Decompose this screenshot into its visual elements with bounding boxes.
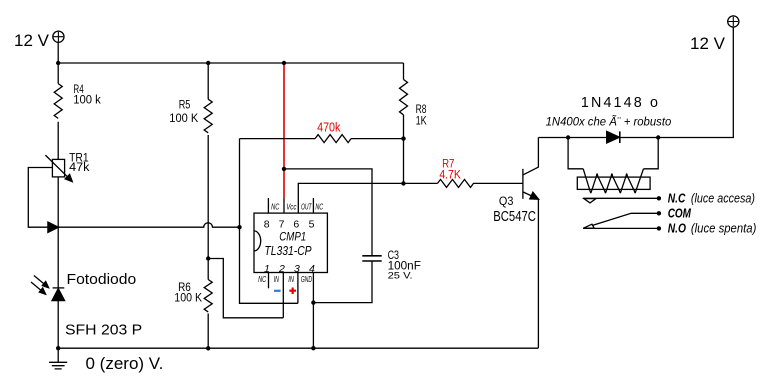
svg-text:1N4148 o: 1N4148 o	[581, 95, 658, 111]
svg-text:R8: R8	[416, 104, 427, 116]
svg-text:N.O: N.O	[668, 222, 687, 236]
svg-text:8: 8	[264, 219, 270, 231]
svg-text:Fotodiodo: Fotodiodo	[67, 271, 137, 288]
svg-text:R5: R5	[179, 100, 191, 112]
svg-text:Vcc: Vcc	[286, 202, 297, 212]
svg-text:1N400x che Ã¨ + robusto: 1N400x che Ã¨ + robusto	[546, 115, 672, 128]
svg-text:CMP1: CMP1	[279, 229, 306, 243]
svg-text:470k: 470k	[317, 120, 341, 135]
svg-text:NC: NC	[271, 202, 280, 212]
svg-text:6: 6	[293, 219, 299, 231]
svg-text:5: 5	[309, 219, 315, 231]
svg-text:1: 1	[264, 263, 270, 275]
svg-text:(luce spenta): (luce spenta)	[691, 222, 757, 236]
svg-text:3: 3	[294, 263, 300, 275]
svg-text:NC: NC	[258, 274, 267, 284]
svg-text:IN: IN	[288, 274, 294, 284]
svg-text:BC547C: BC547C	[493, 209, 536, 225]
svg-text:(luce accesa): (luce accesa)	[691, 192, 755, 206]
svg-text:4.7K: 4.7K	[439, 170, 461, 182]
svg-text:COM: COM	[668, 207, 692, 221]
svg-text:0 (zero) V.: 0 (zero) V.	[86, 354, 164, 373]
svg-text:100 k: 100 k	[73, 94, 101, 106]
svg-text:Q3: Q3	[499, 196, 514, 208]
svg-text:1K: 1K	[416, 116, 427, 128]
svg-text:25 V.: 25 V.	[388, 271, 413, 282]
svg-text:IN: IN	[274, 274, 280, 284]
svg-text:2: 2	[278, 263, 285, 275]
svg-text:OUT: OUT	[301, 202, 312, 212]
svg-text:TL331-CP: TL331-CP	[264, 243, 311, 258]
svg-text:12 V: 12 V	[690, 34, 726, 53]
svg-text:N.C: N.C	[668, 192, 686, 206]
svg-text:100 K: 100 K	[169, 113, 198, 125]
svg-text:47k: 47k	[69, 162, 90, 174]
svg-text:4: 4	[309, 263, 315, 275]
svg-text:GND: GND	[301, 274, 312, 284]
svg-text:SFH 203 P: SFH 203 P	[65, 321, 142, 338]
svg-text:100 K: 100 K	[174, 292, 202, 304]
svg-text:12 V: 12 V	[14, 31, 50, 50]
svg-text:NC: NC	[315, 202, 323, 212]
svg-text:7: 7	[279, 219, 285, 231]
